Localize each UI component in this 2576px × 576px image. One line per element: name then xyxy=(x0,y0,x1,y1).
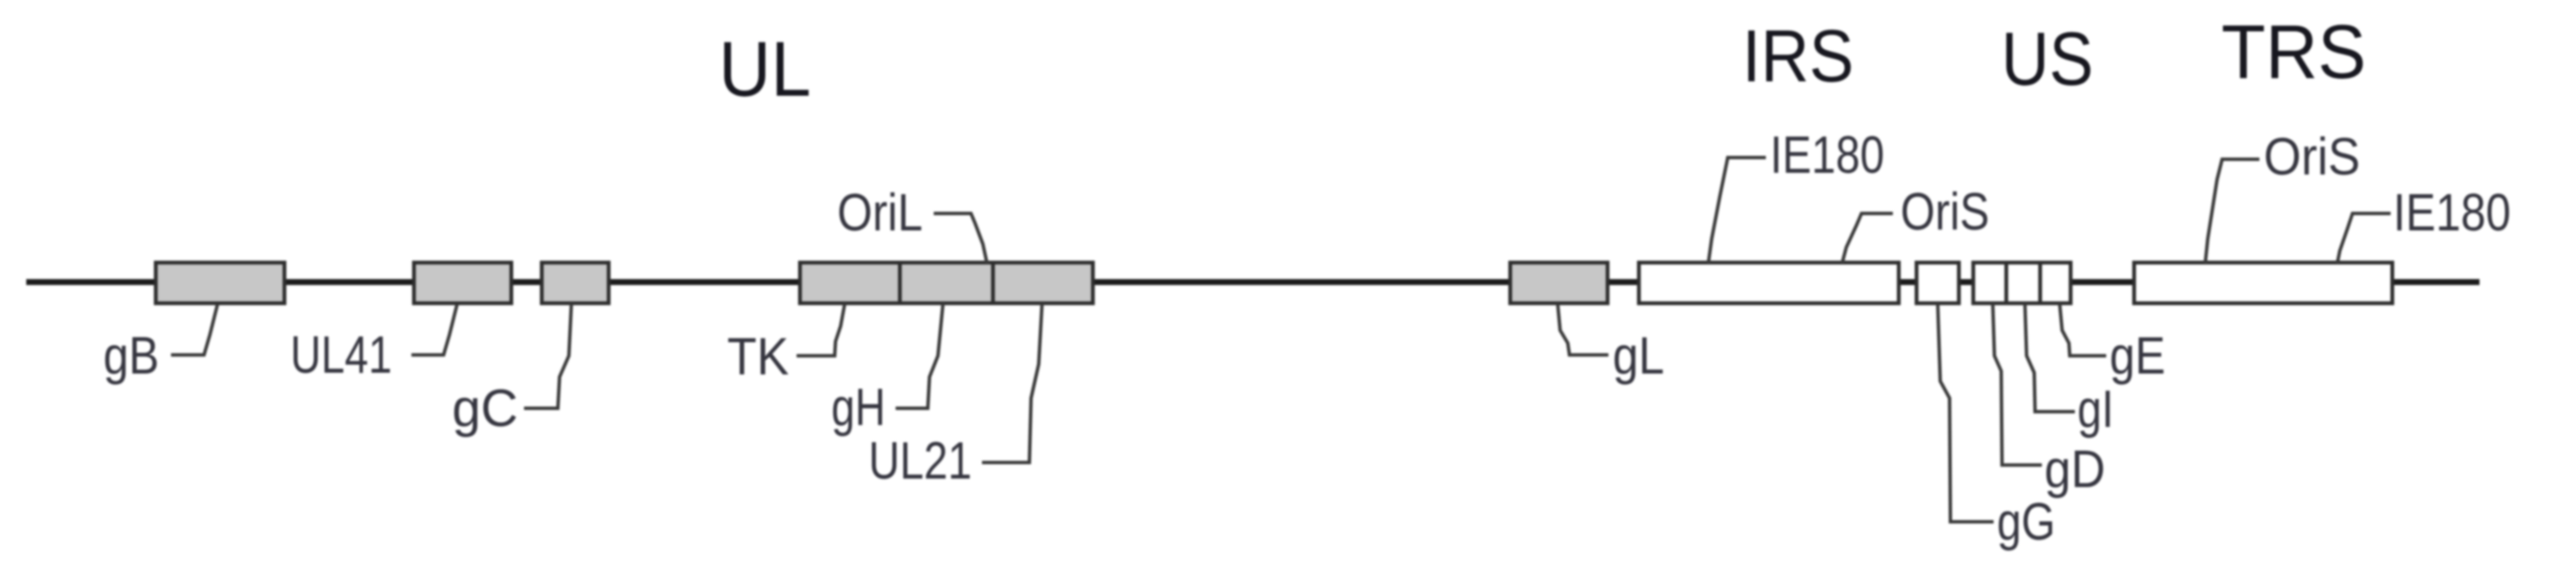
svg-text:IE180: IE180 xyxy=(1770,126,1884,185)
svg-text:gG: gG xyxy=(1997,493,2055,551)
svg-text:gI: gI xyxy=(2077,380,2114,439)
svg-text:OriS: OriS xyxy=(1900,183,1989,241)
svg-text:UL: UL xyxy=(719,26,811,113)
svg-text:gD: gD xyxy=(2044,440,2105,499)
svg-text:gE: gE xyxy=(2110,327,2165,385)
svg-text:IE180: IE180 xyxy=(2393,184,2511,242)
svg-text:gB: gB xyxy=(103,327,159,385)
svg-text:gL: gL xyxy=(1613,327,1664,385)
svg-text:gH: gH xyxy=(831,379,885,437)
svg-text:UL21: UL21 xyxy=(869,432,972,490)
svg-text:TRS: TRS xyxy=(2221,10,2366,95)
svg-text:UL41: UL41 xyxy=(290,326,392,385)
svg-text:OriL: OriL xyxy=(837,184,923,242)
svg-text:OriS: OriS xyxy=(2264,128,2360,186)
svg-text:US: US xyxy=(2001,16,2093,101)
svg-text:IRS: IRS xyxy=(1742,15,1854,97)
svg-text:TK: TK xyxy=(727,328,789,386)
svg-text:gC: gC xyxy=(452,379,518,438)
